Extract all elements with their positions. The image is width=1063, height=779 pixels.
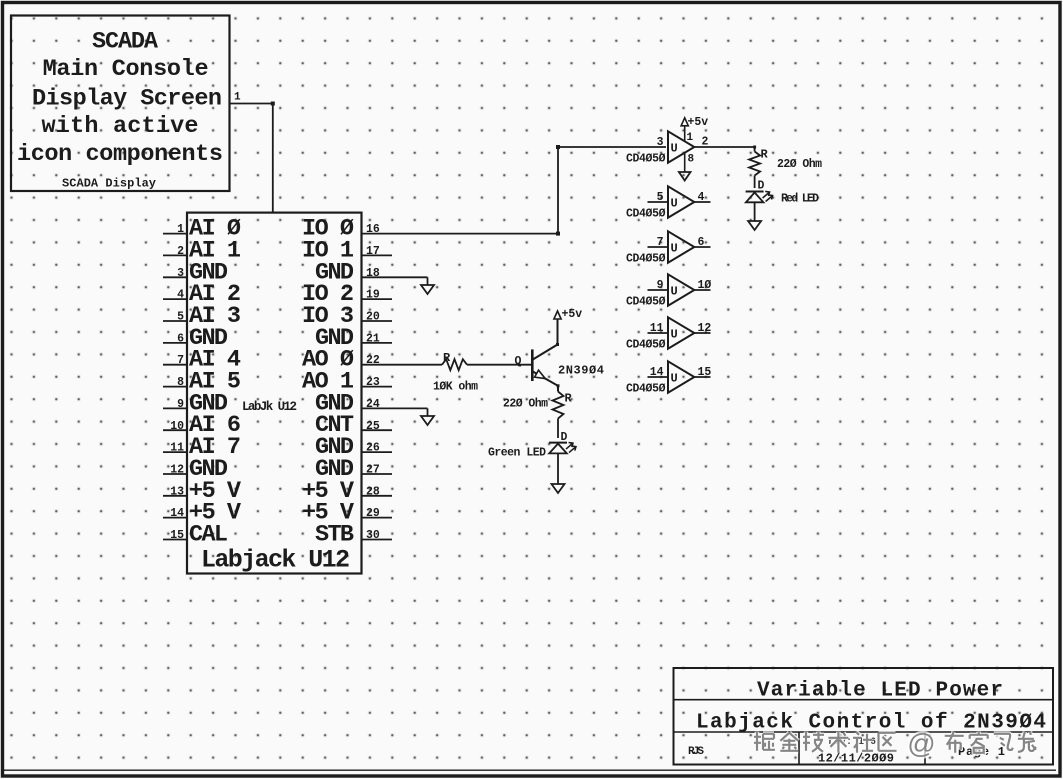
svg-text:LabJk U12: LabJk U12 [242,400,297,414]
svg-text:1: 1 [687,132,694,144]
svg-text:CD4Ø5Ø: CD4Ø5Ø [626,208,666,221]
svg-text:4: 4 [698,191,705,204]
svg-text:15: 15 [698,366,712,379]
svg-text:11: 11 [650,322,664,335]
svg-text:U: U [671,197,678,211]
svg-text:SCADA: SCADA [92,29,159,56]
svg-text:U: U [671,285,678,299]
svg-text:3: 3 [657,136,664,149]
svg-text:13: 13 [170,485,184,498]
svg-text:8: 8 [688,154,695,166]
svg-text:+5v: +5v [688,116,709,129]
svg-text:U: U [671,242,678,256]
svg-text:5: 5 [177,311,184,324]
svg-text:22Ø Ohm: 22Ø Ohm [777,158,822,171]
svg-text:R: R [761,148,769,162]
svg-text:1: 1 [234,92,241,104]
svg-text:4: 4 [177,289,184,302]
svg-text:5: 5 [657,191,664,204]
svg-text:15: 15 [170,529,184,542]
svg-text:2N39Ø4: 2N39Ø4 [558,364,604,378]
svg-text:RJS: RJS [688,746,704,758]
svg-text:8: 8 [177,376,184,389]
svg-text:U: U [671,372,678,386]
svg-text:Labjack Control of 2N39Ø4: Labjack Control of 2N39Ø4 [696,712,1046,735]
svg-text:14: 14 [170,507,184,520]
svg-text:12: 12 [170,464,184,477]
svg-text:1Ø: 1Ø [698,279,712,292]
svg-text:Green LED: Green LED [488,447,546,460]
svg-text:3: 3 [177,267,184,280]
svg-text:CD4Ø5Ø: CD4Ø5Ø [626,339,666,352]
svg-text:2: 2 [177,245,184,258]
svg-text:7: 7 [177,354,184,367]
svg-text:U: U [671,142,678,156]
svg-text:U: U [671,328,678,342]
svg-text:+5v: +5v [562,308,583,321]
svg-text:Display Screen: Display Screen [32,86,222,113]
svg-text:9: 9 [177,398,184,411]
svg-text:Labjack U12: Labjack U12 [201,546,350,575]
svg-text:9: 9 [657,279,664,292]
svg-text:STB: STB [315,522,354,549]
svg-text:SCADA Display: SCADA Display [62,177,156,191]
svg-text:Variable LED Power: Variable LED Power [757,679,1003,702]
svg-text:CD4Ø5Ø: CD4Ø5Ø [626,153,666,166]
svg-text:1ØK ohm: 1ØK ohm [433,381,478,394]
svg-text:CD4Ø5Ø: CD4Ø5Ø [626,296,666,309]
svg-text:7: 7 [657,236,664,249]
svg-text:11: 11 [170,442,184,455]
svg-text:12: 12 [698,322,712,335]
svg-text:@: @ [907,728,935,759]
svg-text:Red LED: Red LED [781,193,819,206]
svg-text:10: 10 [170,420,184,433]
svg-text:icon components: icon components [17,141,223,168]
svg-text:with active: with active [42,113,199,140]
svg-text:CD4Ø5Ø: CD4Ø5Ø [626,253,666,266]
svg-text:6: 6 [698,236,705,249]
svg-text:CD4Ø5Ø: CD4Ø5Ø [626,383,666,396]
svg-text:R: R [565,392,573,406]
svg-text:22Ø Ohm: 22Ø Ohm [503,398,548,411]
svg-text:Main Console: Main Console [43,56,209,83]
svg-text:CAL: CAL [189,522,228,549]
svg-text:Q: Q [515,355,522,368]
svg-text:14: 14 [650,366,664,379]
svg-text:1: 1 [177,223,184,236]
svg-text:12/11/2ØØ9: 12/11/2ØØ9 [818,752,894,766]
svg-text:6: 6 [177,332,184,345]
svg-text:R: R [443,351,451,365]
